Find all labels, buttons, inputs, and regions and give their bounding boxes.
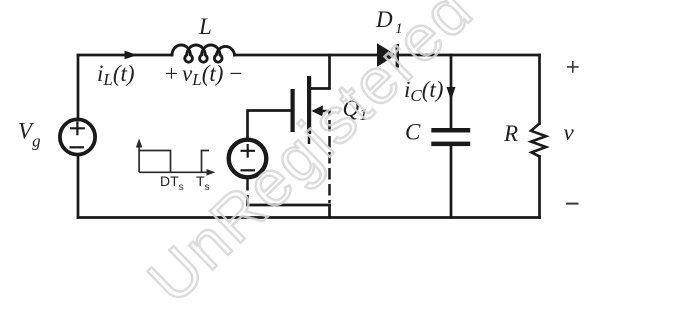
svg-text:C: C (405, 119, 421, 144)
wire right branch lower (from R) (538, 157, 541, 218)
gate signal sketch (139, 146, 209, 172)
svg-text:R: R (503, 121, 518, 146)
wire driver return horizontal (248, 204, 330, 207)
gate driver source (229, 140, 267, 178)
capacitor current arrow (447, 87, 456, 101)
wire left branch lower (77, 156, 80, 217)
driver plus sign (241, 144, 256, 158)
capacitor C top plate (431, 128, 470, 133)
sketch vertical axis arrowhead (136, 139, 143, 148)
output plus sign (567, 61, 579, 73)
voltage source Vg (60, 119, 95, 154)
Vg minus sign (70, 146, 85, 148)
wire capacitor branch lower (450, 146, 453, 217)
wire top rail middle segment (234, 54, 377, 57)
wire dashed below driver (246, 179, 249, 204)
inductor L (172, 45, 235, 62)
diode D1 cathode bar (396, 44, 399, 68)
Vg plus sign (70, 122, 85, 136)
dashed gate-return wires (248, 111, 330, 204)
sketch time axis arrowhead (207, 169, 216, 176)
wire right branch upper (to R) (538, 55, 541, 124)
inductor current arrow (125, 51, 138, 60)
svg-text:DTs: DTs (160, 173, 184, 193)
svg-text:iL(t): iL(t) (97, 61, 135, 89)
svg-text:Vg: Vg (18, 118, 41, 150)
svg-text:L: L (198, 14, 212, 39)
sketch pulse waveform (139, 151, 209, 173)
wire MOSFET drain lead (311, 55, 330, 89)
wire top rail right segment (399, 54, 540, 57)
wire dashed below channel bar (308, 136, 311, 144)
wire capacitor branch upper (450, 55, 453, 128)
sketch axis vertical (138, 146, 140, 172)
capacitor C bottom plate (431, 142, 470, 147)
output minus sign (566, 203, 579, 205)
wire left branch upper (77, 55, 80, 118)
wire dashed body connection (323, 111, 330, 203)
labels italic serif (18, 7, 575, 150)
wire gate lead (248, 111, 291, 139)
transistor Q1 gate bar (291, 89, 295, 132)
svg-text:v: v (564, 120, 575, 145)
svg-text:Ts: Ts (196, 173, 210, 193)
diode D1 triangle (377, 43, 396, 67)
wire top rail left segment (78, 54, 172, 57)
sketch axis horizontal (139, 171, 208, 173)
driver minus sign (241, 169, 256, 171)
transistor Q1 channel bar (307, 76, 311, 134)
wire bottom rail (78, 216, 540, 219)
wire source to ground (328, 205, 331, 218)
svg-text:+vL(t)−: +vL(t)− (164, 61, 244, 89)
transistor Q1 body arrow (312, 105, 323, 116)
resistor R zigzag (531, 124, 546, 157)
